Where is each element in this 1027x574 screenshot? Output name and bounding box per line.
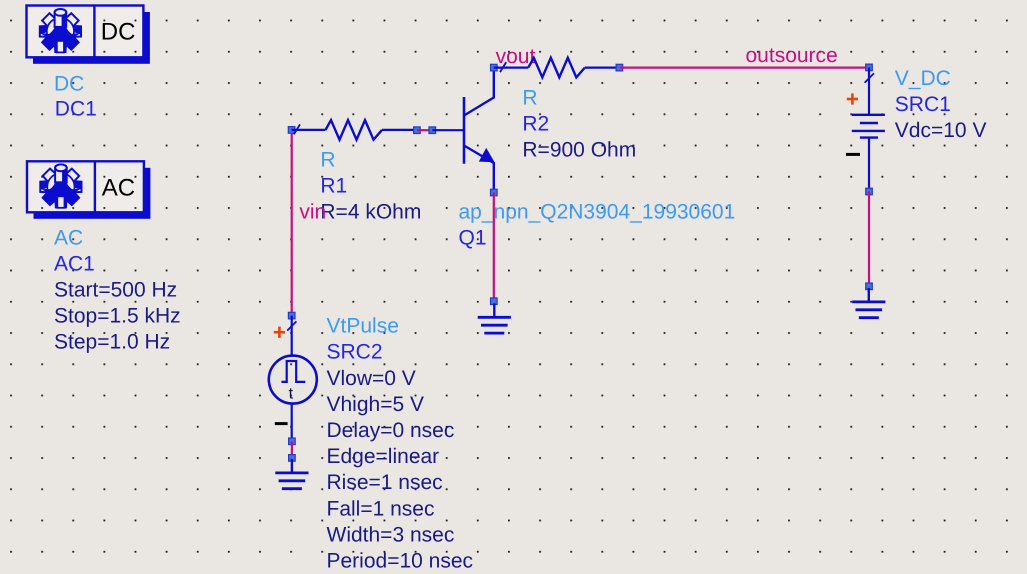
svg-text:R2: R2 (522, 113, 549, 136)
AC controller AC1 box (27, 161, 144, 212)
DC controller U-DC1 box (27, 6, 144, 58)
node Q1 base (429, 127, 436, 134)
ground below Q1 emitter (478, 303, 511, 333)
svg-text:Width=3 nsec: Width=3 nsec (327, 523, 455, 546)
pulse source SRC2 VtPulse (269, 316, 317, 442)
wire SRC1 to ground (868, 192, 870, 287)
DC controller U-DC1 shadow (33, 12, 150, 64)
svg-text:outsource: outsource (746, 44, 838, 67)
svg-text:R: R (522, 87, 537, 110)
svg-text:AC1: AC1 (54, 253, 95, 276)
svg-text:Vhigh=5 V: Vhigh=5 V (327, 393, 425, 416)
wire Q1 emitter to ground (493, 193, 495, 302)
AC controller AC1 shadow (34, 168, 151, 219)
svg-text:AC: AC (102, 174, 135, 201)
ground below SRC1 (852, 288, 885, 318)
svg-text:R: R (320, 149, 335, 172)
node vout (Q1 collector / R2 pin1) (491, 64, 498, 71)
node above SRC1 ground (866, 283, 873, 290)
voltage source SRC1 V_DC battery (852, 67, 885, 191)
transistor Q1 (464, 68, 495, 193)
node above Q1 ground (491, 298, 498, 305)
plus sign SRC1 (847, 93, 858, 104)
svg-text:Step=1.0 Hz: Step=1.0 Hz (54, 331, 170, 354)
svg-text:Period=10 nsec: Period=10 nsec (327, 549, 474, 572)
resistor R2 (494, 58, 620, 78)
minus sign SRC1 (846, 153, 860, 156)
wire R1 to Q1 base (417, 129, 432, 131)
ground below SRC2 (275, 459, 308, 489)
svg-text:Q1: Q1 (459, 226, 487, 249)
svg-text:Delay=0 nsec: Delay=0 nsec (327, 419, 455, 442)
svg-text:VtPulse: VtPulse (327, 315, 399, 338)
svg-text:R=900 Ohm: R=900 Ohm (522, 139, 636, 162)
svg-text:R1: R1 (320, 175, 347, 198)
svg-text:R=4 kOhm: R=4 kOhm (320, 201, 421, 224)
wire SRC2 to ground node (291, 441, 293, 458)
DC controller gear icon (40, 9, 81, 52)
svg-text:DC1: DC1 (55, 98, 97, 121)
wire Q1 base lead (432, 129, 463, 131)
svg-text:Rise=1 nsec: Rise=1 nsec (327, 471, 443, 494)
svg-text:t: t (289, 386, 294, 403)
node SRC1 minus pin (866, 188, 873, 195)
node R1 pin1 / net vin (288, 127, 295, 134)
resistor R1 (292, 120, 417, 140)
AC controller gear icon (40, 164, 81, 207)
svg-text:AC: AC (54, 227, 83, 250)
node Q1 emitter (491, 189, 498, 196)
svg-text:SRC2: SRC2 (327, 341, 383, 364)
svg-text:Edge=linear: Edge=linear (327, 445, 440, 468)
node above SRC2 ground (289, 455, 296, 462)
node SRC1 plus pin (866, 64, 873, 71)
svg-text:Start=500 Hz: Start=500 Hz (54, 279, 177, 302)
node R2 pin2 (616, 64, 623, 71)
wire net vin vertical (291, 130, 293, 316)
svg-text:vin: vin (299, 201, 326, 224)
node SRC2 minus pin (289, 438, 296, 445)
node R1 pin2 (414, 127, 421, 134)
node SRC2 plus pin (288, 312, 295, 319)
svg-text:Stop=1.5 kHz: Stop=1.5 kHz (54, 305, 181, 328)
svg-text:Vdc=10 V: Vdc=10 V (895, 119, 987, 142)
svg-text:Vlow=0 V: Vlow=0 V (327, 367, 416, 390)
wire net outsource (620, 66, 869, 68)
svg-text:ap_npn_Q2N3904_19930601: ap_npn_Q2N3904_19930601 (459, 200, 736, 223)
plus sign SRC2 (274, 327, 285, 338)
svg-text:V_DC: V_DC (895, 67, 951, 90)
svg-text:DC: DC (54, 73, 84, 96)
svg-text:DC: DC (101, 19, 136, 46)
svg-text:Fall=1 nsec: Fall=1 nsec (327, 497, 435, 520)
minus sign SRC2 (275, 422, 288, 425)
svg-text:SRC1: SRC1 (895, 93, 951, 116)
